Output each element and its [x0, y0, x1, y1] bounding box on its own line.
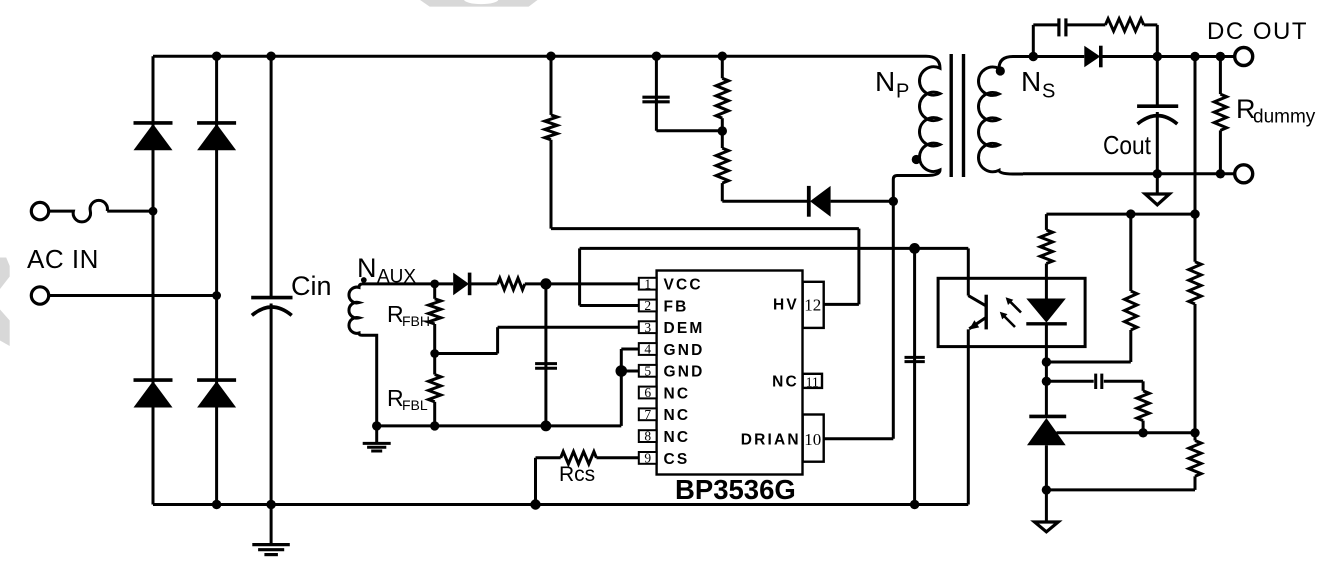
node compensation tap: [1042, 377, 1051, 386]
watermark left fragment 2: [0, 310, 10, 347]
svg-text:NC: NC: [664, 429, 691, 446]
pin 9 box: [639, 452, 657, 464]
svg-text:9: 9: [644, 451, 651, 466]
wire VCC line left: [362, 282, 453, 285]
wire secondary top: [1033, 55, 1084, 58]
terminal AC live: [31, 202, 48, 219]
ground shunt regulator: [1035, 522, 1059, 532]
svg-text:CS: CS: [664, 451, 690, 468]
wire DRIAN net: [824, 437, 894, 440]
pin 4 box: [639, 343, 657, 355]
resistor output snubber: [1105, 19, 1143, 31]
wire output RC snubber: [1032, 25, 1035, 57]
capacitor output snubber: [1057, 18, 1060, 36]
node DEM divider: [430, 349, 439, 358]
wire Cout upper lead: [1156, 57, 1159, 107]
node top rail Cin: [266, 52, 275, 61]
transformer primary winding NP: [893, 56, 940, 201]
resistor R-LED: [1040, 230, 1052, 264]
node ref divider: [1190, 428, 1199, 437]
wire pin2 FB: [580, 304, 639, 307]
pin 2 box: [639, 300, 657, 312]
svg-text:NC: NC: [664, 385, 691, 402]
opto light arrow 1: [1008, 300, 1021, 313]
wire reference line: [1057, 431, 1196, 434]
terminal AC neutral: [31, 287, 48, 304]
wire compensation branch: [1046, 380, 1093, 383]
svg-text:8: 8: [644, 429, 651, 444]
resistor RFBL: [433, 354, 436, 375]
node Cout top: [1153, 52, 1162, 61]
wire R1-R2 junction lead: [721, 118, 724, 148]
node fuse junction: [149, 207, 158, 216]
node snubber junction: [718, 126, 727, 135]
node top rail R-HV: [546, 52, 555, 61]
svg-text:BP3536G: BP3536G: [675, 474, 796, 505]
resistor Rcs: [561, 452, 597, 464]
wire snubber cap to R1: [656, 129, 722, 132]
terminal DC OUT positive: [1235, 48, 1253, 66]
pin 8 box: [639, 430, 657, 442]
pin 6 box: [639, 387, 657, 399]
wire DEM net: [498, 326, 639, 329]
svg-text:DEM: DEM: [664, 320, 705, 337]
wire R1 upper lead: [721, 56, 724, 78]
node ground rail Rcs: [530, 499, 540, 509]
svg-text:FB: FB: [664, 298, 689, 315]
diode D7 VCC: [453, 273, 469, 296]
capacitor Cout: [1137, 104, 1178, 108]
svg-text:FBH: FBH: [402, 313, 430, 329]
secondary polarity dot: [996, 66, 1005, 75]
wire bridge right column: [215, 56, 218, 504]
svg-text:N: N: [357, 253, 377, 283]
capacitor C-comp: [1094, 374, 1097, 389]
wire bridge left column: [152, 56, 155, 504]
wire clamp diode to drain: [831, 200, 894, 203]
node ref comp: [1138, 428, 1147, 437]
svg-text:7: 7: [644, 407, 651, 422]
node top rail R1: [718, 52, 727, 61]
svg-text:6: 6: [644, 385, 651, 400]
node Rdummy top: [1216, 52, 1225, 61]
resistor R1 snubber: [716, 78, 728, 118]
primary polarity dot: [912, 155, 921, 164]
svg-text:N: N: [1021, 66, 1041, 97]
wire output positive rail: [1101, 55, 1235, 58]
ground secondary: [1156, 174, 1159, 194]
svg-text:GND: GND: [664, 342, 705, 359]
svg-text:12: 12: [804, 296, 821, 315]
pin 3 box: [639, 321, 657, 333]
node ground rail bridge: [212, 500, 221, 509]
wire HV net: [550, 140, 553, 229]
node ground rail C-FB: [910, 500, 919, 509]
resistor R-VCC: [498, 278, 525, 290]
terminal DC OUT negative: [1235, 165, 1253, 183]
diode D8 shunt regulator: [1029, 415, 1066, 419]
wire R2 to clamp diode: [721, 183, 724, 201]
svg-text:Cin: Cin: [291, 271, 332, 301]
svg-text:11: 11: [806, 375, 819, 390]
wire mid resistor branch: [1129, 214, 1132, 291]
pin 1 box: [639, 278, 657, 290]
opto light arrow 2: [1002, 314, 1015, 327]
svg-text:AC IN: AC IN: [27, 244, 99, 274]
node aux rail RFBL: [430, 421, 439, 430]
diode D5 clamp: [807, 186, 811, 217]
wire fuse to bridge: [107, 210, 153, 213]
resistor RFBH: [433, 284, 436, 299]
ground auxiliary: [375, 426, 378, 443]
svg-text:Rcs: Rcs: [559, 463, 595, 486]
svg-text:dummy: dummy: [1253, 107, 1316, 128]
ground primary bulk: [270, 505, 273, 544]
svg-text:1: 1: [644, 276, 651, 291]
resistor R-comp: [1137, 391, 1149, 421]
wire pin4 GND jog: [621, 348, 639, 351]
wire VCC to pin1: [525, 282, 639, 285]
wire R-HV upper lead: [550, 56, 553, 115]
svg-text:S: S: [1042, 81, 1055, 103]
wire output negative rail: [1023, 172, 1235, 175]
svg-text:10: 10: [804, 430, 821, 449]
wire Cin lower lead: [270, 304, 273, 505]
wire Cout lower lead: [1156, 112, 1159, 174]
svg-text:DRIAN: DRIAN: [741, 432, 801, 449]
svg-text:NC: NC: [664, 407, 691, 424]
node aux rail winding: [372, 421, 381, 430]
wire pin9 CS: [596, 456, 639, 459]
watermark left fragment 1: [0, 258, 10, 290]
diode D1 bridge upper-left: [134, 121, 173, 125]
node top rail snubber cap: [652, 52, 661, 61]
wire primary ground rail: [153, 503, 968, 506]
diode D6 output rectifier: [1084, 46, 1100, 68]
opto LED: [1045, 264, 1048, 299]
wire AC neutral: [49, 294, 217, 297]
svg-text:GND: GND: [664, 364, 705, 381]
wire sense divider: [1194, 57, 1197, 262]
node top rail bridge: [212, 52, 221, 61]
node shunt anode: [1042, 485, 1051, 494]
node ground rail Cin: [266, 500, 275, 509]
node LED cathode: [1042, 357, 1051, 366]
resistor R-divider-lower: [1189, 441, 1201, 477]
optocoupler U2 box: [938, 278, 1085, 346]
svg-text:N: N: [875, 66, 895, 97]
node secondary snubber tap: [1029, 52, 1038, 61]
svg-text:2: 2: [644, 298, 651, 313]
transformer core: [950, 54, 953, 177]
node A divider: [1190, 209, 1199, 218]
node AC neutral junction: [212, 291, 221, 300]
aux polarity dot: [361, 277, 367, 283]
svg-text:5: 5: [644, 363, 651, 378]
wire aux ground rail: [377, 424, 622, 427]
resistor R-HV: [545, 115, 557, 140]
svg-text:4: 4: [644, 342, 651, 357]
diode D3 bridge lower-left: [134, 378, 173, 382]
node aux rail C-VCC: [541, 421, 552, 432]
pin 7 box: [639, 408, 657, 420]
capacitor snubber: [642, 96, 669, 99]
wire VCC diode to resistor: [470, 282, 498, 285]
capacitor Cin: [251, 296, 292, 300]
resistor R-mid: [1125, 291, 1137, 330]
diode D2 bridge upper-right: [197, 121, 236, 125]
wire snubber cap lead: [655, 56, 658, 131]
svg-text:3: 3: [644, 320, 651, 335]
pin 10 box: [803, 415, 824, 462]
node A mid resistor: [1126, 209, 1135, 218]
diode D4 bridge lower-right: [197, 378, 236, 382]
fuse F1: [50, 200, 108, 222]
pin 11 box: [803, 374, 822, 388]
node drain: [889, 197, 898, 206]
wire Cin upper lead: [270, 56, 273, 297]
capacitor C-FB: [913, 248, 916, 504]
node Cout bottom: [1153, 169, 1162, 178]
svg-text:FBL: FBL: [402, 397, 428, 413]
watermark top fragment: [420, 0, 537, 7]
node sense divider top: [1190, 52, 1199, 61]
resistor R2 snubber: [716, 148, 728, 183]
svg-text:P: P: [896, 81, 909, 103]
wire sense node A: [1045, 214, 1048, 230]
svg-text:HV: HV: [773, 296, 799, 313]
svg-text:NC: NC: [772, 373, 799, 390]
opto phototransistor: [967, 248, 970, 295]
wire top rail: [153, 55, 926, 58]
svg-text:DC OUT: DC OUT: [1207, 18, 1308, 45]
wire Rcs to ground rail: [536, 456, 561, 459]
node RFBH top: [430, 280, 439, 289]
resistor Rdummy: [1219, 57, 1222, 95]
transformer secondary winding NS: [978, 57, 1033, 174]
node VCC: [540, 278, 551, 289]
resistor R-divider-upper: [1189, 262, 1201, 304]
node FB bypass: [909, 243, 920, 254]
auxiliary winding NAUX: [349, 284, 377, 426]
pin 5 box: [639, 365, 657, 377]
capacitor C-VCC: [544, 284, 547, 426]
op-amp U1 BP3536G body: [657, 271, 803, 475]
node GND pins: [616, 365, 628, 377]
wire pin5 GND: [621, 370, 639, 373]
node Rdummy bottom: [1216, 169, 1225, 178]
pin 12 box: [803, 282, 824, 328]
svg-text:Cout: Cout: [1103, 130, 1152, 160]
svg-text:VCC: VCC: [664, 277, 703, 294]
